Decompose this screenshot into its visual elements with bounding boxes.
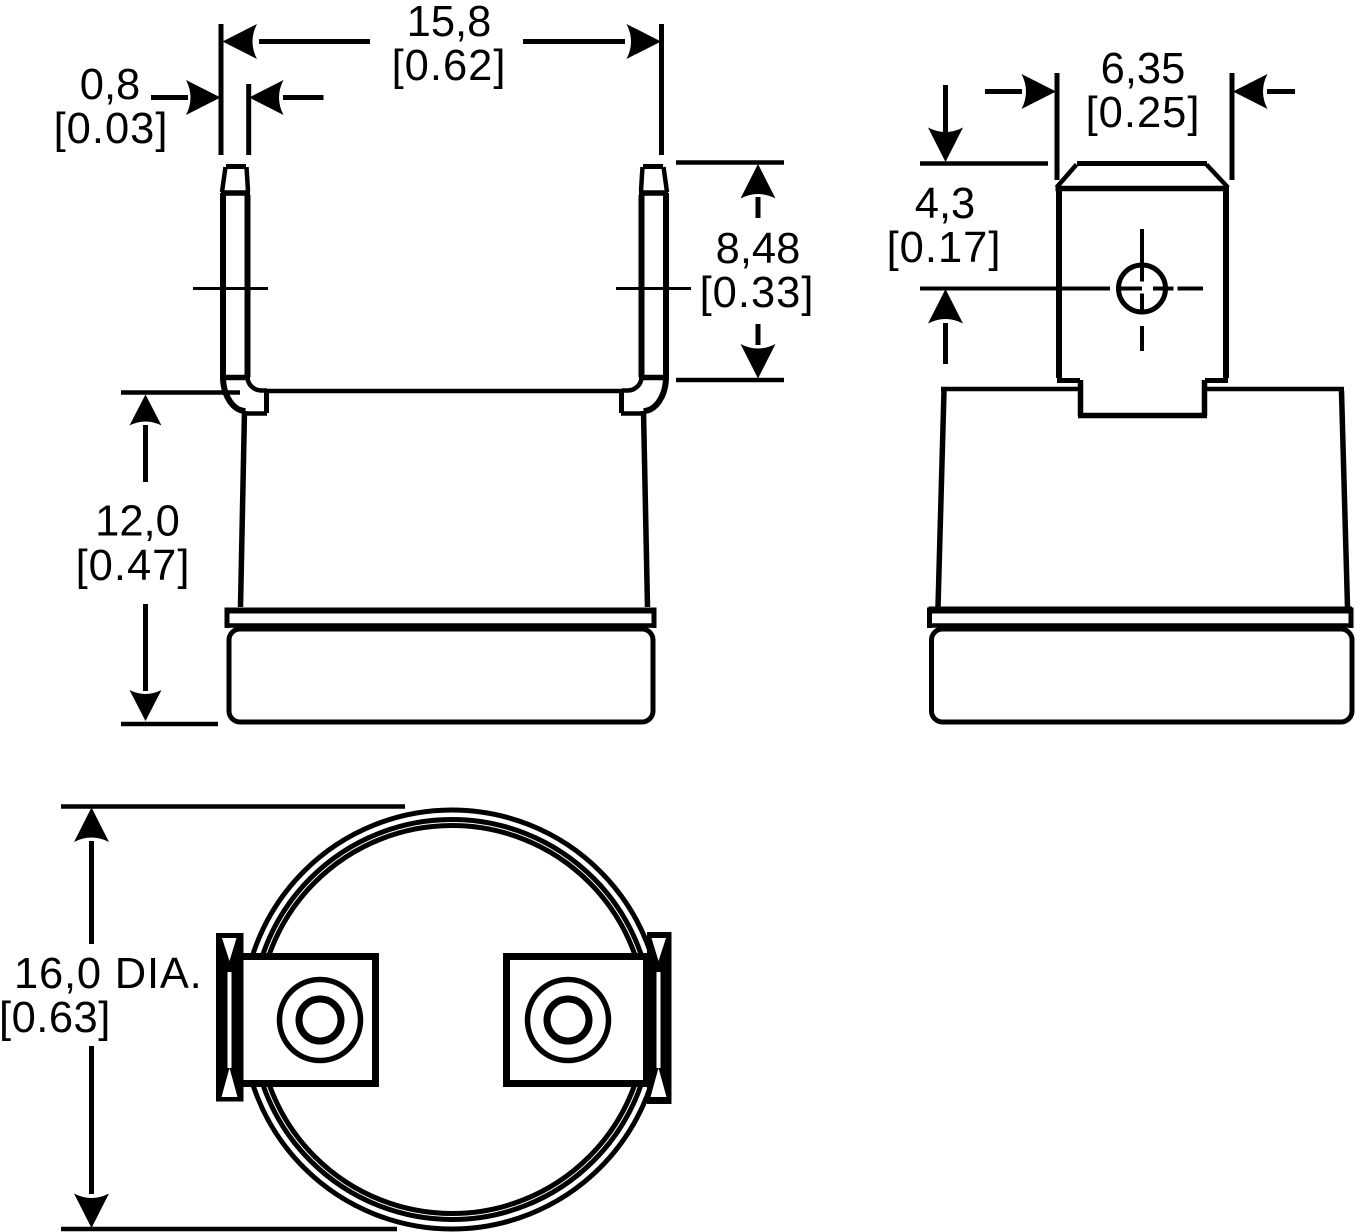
svg-text:[0.63]: [0.63] (0, 994, 111, 1042)
svg-text:[0.62]: [0.62] (392, 42, 507, 90)
svg-text:6,35: 6,35 (1101, 45, 1186, 93)
svg-text:[0.33]: [0.33] (700, 269, 815, 317)
svg-text:8,48: 8,48 (716, 225, 801, 273)
svg-text:15,8: 15,8 (407, 0, 492, 46)
svg-text:16,0 DIA.: 16,0 DIA. (14, 950, 203, 998)
svg-text:[0.03]: [0.03] (54, 105, 169, 153)
svg-text:4,3: 4,3 (915, 180, 975, 228)
svg-text:[0.25]: [0.25] (1086, 89, 1201, 137)
svg-text:12,0: 12,0 (95, 498, 180, 546)
svg-text:[0.47]: [0.47] (76, 542, 191, 590)
svg-text:0,8: 0,8 (80, 61, 140, 109)
svg-text:[0.17]: [0.17] (887, 224, 1002, 272)
